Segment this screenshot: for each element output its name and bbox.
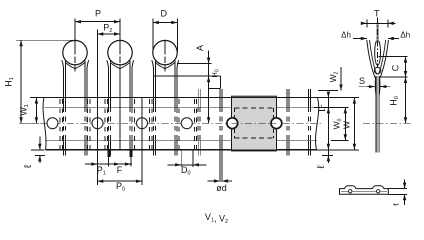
svg-text:L: L <box>315 104 324 108</box>
svg-text:S: S <box>359 76 365 86</box>
svg-text:P: P <box>95 8 101 18</box>
svg-text:F: F <box>117 165 123 175</box>
svg-text:Δh: Δh <box>400 30 410 39</box>
svg-text:C: C <box>390 64 400 71</box>
svg-text:Δh: Δh <box>341 30 351 39</box>
svg-text:W: W <box>342 121 352 129</box>
svg-text:D: D <box>161 8 168 18</box>
svg-text:T: T <box>374 9 380 19</box>
svg-text:A: A <box>195 45 205 51</box>
svg-text:ød: ød <box>216 183 227 193</box>
